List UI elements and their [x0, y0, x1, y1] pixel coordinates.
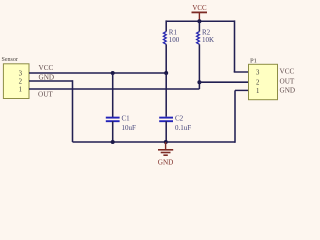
svg-text:VCC: VCC — [192, 5, 207, 12]
node C1 top junction — [111, 71, 115, 75]
svg-text:1: 1 — [256, 88, 259, 95]
wire R2 bottom to OUT node — [198, 44, 200, 82]
svg-text:2: 2 — [256, 79, 260, 86]
svg-text:10K: 10K — [202, 36, 214, 44]
capacitor C2 — [159, 115, 191, 143]
svg-text:100: 100 — [169, 36, 180, 44]
svg-text:C2: C2 — [175, 115, 184, 123]
svg-text:P1: P1 — [250, 57, 257, 64]
svg-text:GND: GND — [280, 87, 296, 95]
wire C2 upper (R1 node to C2) — [165, 73, 167, 117]
svg-text:GND: GND — [39, 73, 55, 81]
svg-text:3: 3 — [19, 71, 23, 78]
wire R1 bottom to VCC node — [165, 44, 167, 73]
svg-text:1: 1 — [19, 87, 22, 94]
wire VCC to P1 vertical — [234, 20, 236, 72]
node C1 bottom junction — [111, 140, 115, 144]
svg-text:R2: R2 — [202, 28, 211, 36]
svg-text:C1: C1 — [122, 115, 131, 123]
connector Sensor — [2, 57, 30, 98]
svg-text:3: 3 — [256, 70, 260, 77]
wire sensor GND vertical — [72, 80, 74, 142]
resistor R2 — [197, 28, 214, 44]
ground symbol GND — [158, 142, 174, 166]
wire P1 pin1 stub — [235, 89, 249, 91]
node OUT/R2/P1 junction — [197, 80, 201, 84]
wire GND rail (bottom) — [73, 141, 236, 143]
wire sensor VCC — [29, 72, 166, 74]
wire VCC rail — [166, 20, 235, 22]
resistor R1 — [163, 28, 179, 44]
svg-text:OUT: OUT — [38, 90, 53, 98]
svg-text:0.1uF: 0.1uF — [175, 124, 191, 132]
connector P1 — [249, 57, 278, 99]
power symbol VCC (top) — [192, 5, 208, 21]
wire sensor OUT — [29, 88, 199, 90]
svg-text:GND: GND — [158, 158, 174, 166]
wire P1 pin3 stub — [234, 71, 249, 73]
wire R1 top — [165, 20, 167, 31]
wire OUT riser — [198, 82, 200, 89]
node R1/C2 junction — [164, 71, 168, 75]
capacitor C1 — [106, 74, 136, 142]
wire P1 pin2 stub — [199, 81, 248, 83]
wire sensor GND horizontal — [29, 80, 73, 82]
svg-text:2: 2 — [19, 79, 23, 86]
svg-text:Sensor: Sensor — [2, 57, 18, 63]
node C2/GND junction — [164, 140, 168, 144]
svg-text:10uF: 10uF — [122, 124, 137, 132]
svg-text:OUT: OUT — [280, 77, 295, 85]
wire R2 top — [198, 20, 200, 31]
svg-text:VCC: VCC — [39, 64, 54, 72]
svg-text:R1: R1 — [169, 28, 178, 36]
svg-text:VCC: VCC — [280, 68, 295, 76]
wire P1 GND vertical — [234, 90, 236, 142]
node VCC rail junction — [197, 19, 201, 23]
